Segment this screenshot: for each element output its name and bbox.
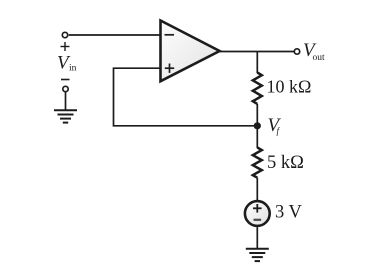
svg-text:out: out xyxy=(313,53,326,63)
label + (Vin polarity) xyxy=(61,42,70,51)
resistor R2 5 kOhm xyxy=(253,148,262,178)
node Vf junction dot xyxy=(254,122,261,129)
svg-text:in: in xyxy=(69,64,77,74)
op-amp U1 xyxy=(161,21,220,82)
wire op-amp output to Vout terminal xyxy=(220,51,295,53)
svg-text:5 kΩ: 5 kΩ xyxy=(267,153,304,173)
wire voltage source to ground xyxy=(256,227,258,248)
wire R1 to R2 through node Vf xyxy=(256,104,258,148)
terminal Vin - xyxy=(63,86,68,91)
terminal Vout xyxy=(294,49,299,54)
ground (Vin) xyxy=(54,110,77,122)
wire Vin+ to op-amp inverting input xyxy=(69,34,161,36)
terminal Vin + xyxy=(62,32,67,37)
wire R2 to voltage source xyxy=(256,178,258,201)
resistor R1 10 kOhm xyxy=(253,73,262,104)
svg-text:10 kΩ: 10 kΩ xyxy=(267,77,312,97)
wire feedback from op-amp + input to node Vf xyxy=(114,68,258,126)
label - (Vin polarity) xyxy=(61,79,70,81)
wire Vin- to ground xyxy=(65,92,67,110)
ground (source) xyxy=(246,249,269,261)
svg-text:3 V: 3 V xyxy=(275,203,303,223)
wire output junction down to R1 xyxy=(256,52,258,74)
voltage source V1 3V xyxy=(245,201,270,226)
